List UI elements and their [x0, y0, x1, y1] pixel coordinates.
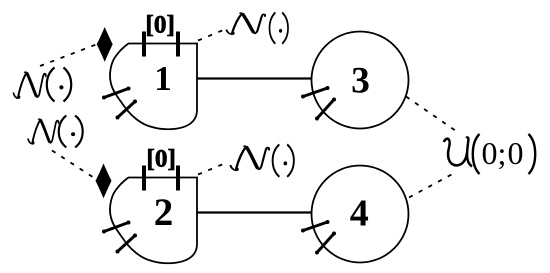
svg-text:[0]: [0]	[146, 146, 176, 173]
svg-text:0: 0	[508, 135, 524, 171]
svg-text:2: 2	[154, 191, 174, 234]
svg-text:3: 3	[351, 61, 370, 102]
svg-text:0: 0	[482, 135, 498, 171]
svg-text:[0]: [0]	[145, 12, 175, 39]
svg-text:1: 1	[154, 59, 172, 98]
svg-text:;: ;	[498, 135, 507, 171]
svg-text:4: 4	[350, 193, 369, 235]
